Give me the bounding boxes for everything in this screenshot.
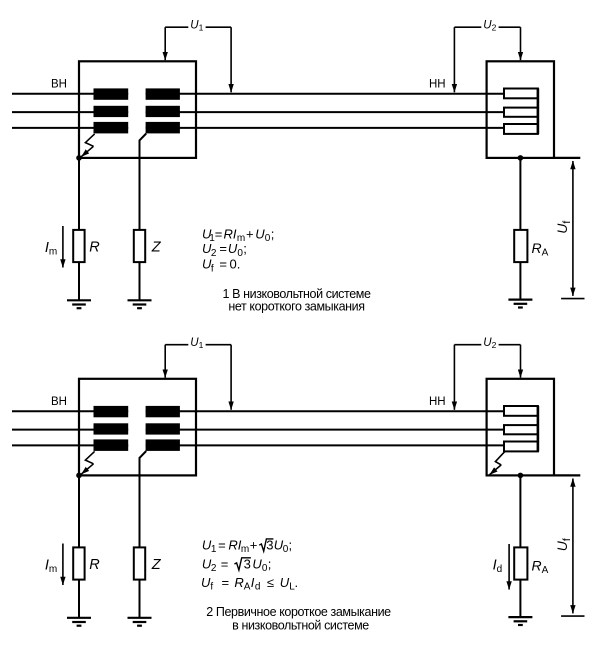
wire phase line L2 [12,111,504,113]
wire from Z to ground [139,262,141,300]
ground under impedance Z [128,300,152,308]
svg-text:f: f [210,582,213,593]
resistor R (earthing resistance of transformer neutral) [73,230,84,262]
svg-text:в низковольтной системе: в низковольтной системе [232,619,369,633]
formula: Uf = RA*Id <= UL [201,575,298,593]
label U2 (voltage between line L1 and equipment box) [454,20,520,33]
resistor R (earthing resistance of transformer neutral) [73,547,84,579]
formula: Uf = 0 [202,257,240,275]
wire from Z to ground [139,580,141,618]
label U1 (voltage between transformer box and line L1) [165,20,231,33]
svg-text:=: = [219,241,227,256]
transformer T2 secondary winding (three bars) [146,406,180,451]
transformer T1 box [79,61,196,158]
svg-text:2: 2 [211,563,217,574]
arrow from U2 to phase line L1 [453,345,455,410]
svg-text:RI: RI [224,226,237,241]
wire phase line L1 [12,410,504,412]
fault zigzag arrow from primary winding to neutral node [81,134,94,157]
wire phase line L3 [12,444,504,446]
current arrow Id [508,544,510,590]
resistor RA (earthing resistance of equipment) [514,230,527,262]
ground under resistor R [67,300,91,308]
current arrow Im [62,544,64,586]
node: transformer neutral junction dot [76,155,82,161]
svg-text:Z: Z [151,240,162,256]
svg-text:=: = [218,538,226,553]
ground under resistor R [67,618,91,626]
arrow from U2 to phase line L1 [453,27,455,92]
wire phase line L3 [12,127,504,129]
svg-text:=: = [221,557,229,572]
svg-text:2: 2 [211,248,217,259]
wire from secondary star point down to impedance Z [140,134,147,231]
svg-text:ВН: ВН [51,396,67,408]
svg-text:1: 1 [211,544,217,555]
fault zigzag arrow from load winding to equipment case [490,451,505,474]
svg-text:A: A [244,582,251,593]
ground under resistor RA [508,617,532,625]
svg-text:;: ; [289,538,293,553]
arrow from U2 to equipment box top [520,27,522,60]
resistor RA (earthing resistance of equipment) [514,547,527,579]
svg-text:НН: НН [429,79,446,91]
node: equipment case earthing junction dot [518,473,524,479]
arrow from U1 to transformer T2 box top [164,345,166,378]
svg-text:U: U [228,241,238,256]
formula: U1 = R*Im + U0 [202,226,274,244]
svg-text:R: R [89,557,100,573]
svg-text:d: d [255,582,261,593]
wire from case node down to resistor RA [519,158,521,230]
svg-text:НН: НН [429,396,446,408]
svg-text:ВН: ВН [51,79,67,91]
wire from neutral node down to resistor R [78,475,80,547]
caption 1: no short circuit in the low-voltage system [222,287,370,314]
transformer T1 primary winding (three bars) [94,88,129,133]
svg-text:=: = [215,226,223,241]
arrow from U2 to equipment box top [520,345,522,378]
svg-text:R: R [89,240,100,256]
reference line: equipment case bottom extended right [554,157,580,159]
current arrow Im [62,226,64,268]
arrow from U1 to phase line L1 [230,345,232,410]
wire from case node down to resistor RA [519,475,521,547]
reference line: equipment case bottom extended right [554,474,580,476]
dimension line Uf (fault voltage) with arrows and bottom tick [561,479,584,617]
equipment box (low-voltage load) [487,379,554,476]
svg-text:+: + [250,538,258,553]
svg-text:m: m [241,544,249,555]
svg-text:;: ; [271,226,275,241]
impedance Z [134,547,145,579]
svg-text:U: U [252,557,262,572]
svg-text:=: = [219,257,227,272]
impedance Z [134,230,145,262]
svg-text:R: R [234,575,243,590]
svg-text:3: 3 [266,538,273,553]
node: equipment case earthing junction dot [518,155,524,161]
label U2 (voltage between line L1 and equipment box) [454,337,520,350]
svg-text:3: 3 [244,557,251,572]
wire from neutral node down to resistor R [78,158,80,230]
wire from secondary star point down to impedance Z [140,451,147,548]
svg-text:RI: RI [228,538,241,553]
svg-text:;: ; [243,241,247,256]
dimension line Uf (fault voltage) with arrows and bottom tick [561,161,584,299]
formula: U1 = R*Im + sqrt(3)*U0 [202,538,292,556]
transformer T2 primary winding (three bars) [94,406,129,451]
transformer T2 box [79,379,196,476]
ground under impedance Z [128,618,152,626]
svg-text:2 Первичное короткое замыкание: 2 Первичное короткое замыкание [206,605,391,619]
wire phase line L1 [12,93,504,95]
svg-text:.: . [295,575,299,590]
arrow from U1 to transformer T1 box top [164,27,166,60]
svg-text:f: f [211,263,214,274]
load windings (comb of three coils) [504,89,538,134]
svg-text:=: = [222,575,230,590]
transformer T1 secondary winding (three bars) [146,88,180,133]
wire from R to ground [78,580,80,618]
wire from RA to ground [519,580,521,618]
wire phase line L2 [12,429,504,431]
label U1 (voltage between transformer box and line L1) [165,337,231,350]
caption 2: primary short circuit in the low-voltage system [206,605,391,633]
svg-text:;: ; [268,557,272,572]
load windings (comb of three coils) [504,406,538,451]
equipment box (low-voltage load) [487,61,554,158]
svg-text:≤: ≤ [267,575,274,590]
node: transformer neutral junction dot [76,473,82,479]
svg-text:0.: 0. [230,257,241,272]
svg-text:нет короткого замыкания: нет короткого замыкания [228,299,364,313]
formula: U2 = sqrt(3)*U0 [202,557,272,575]
ground under resistor RA [508,300,532,308]
svg-text:+: + [246,226,254,241]
wire from R to ground [78,262,80,300]
arrow from U1 to phase line L1 [230,27,232,92]
svg-text:Z: Z [151,557,162,573]
fault zigzag arrow from primary winding to neutral node [81,451,94,474]
formula: U2 = U0 [202,241,247,259]
wire from RA to ground [519,262,521,300]
